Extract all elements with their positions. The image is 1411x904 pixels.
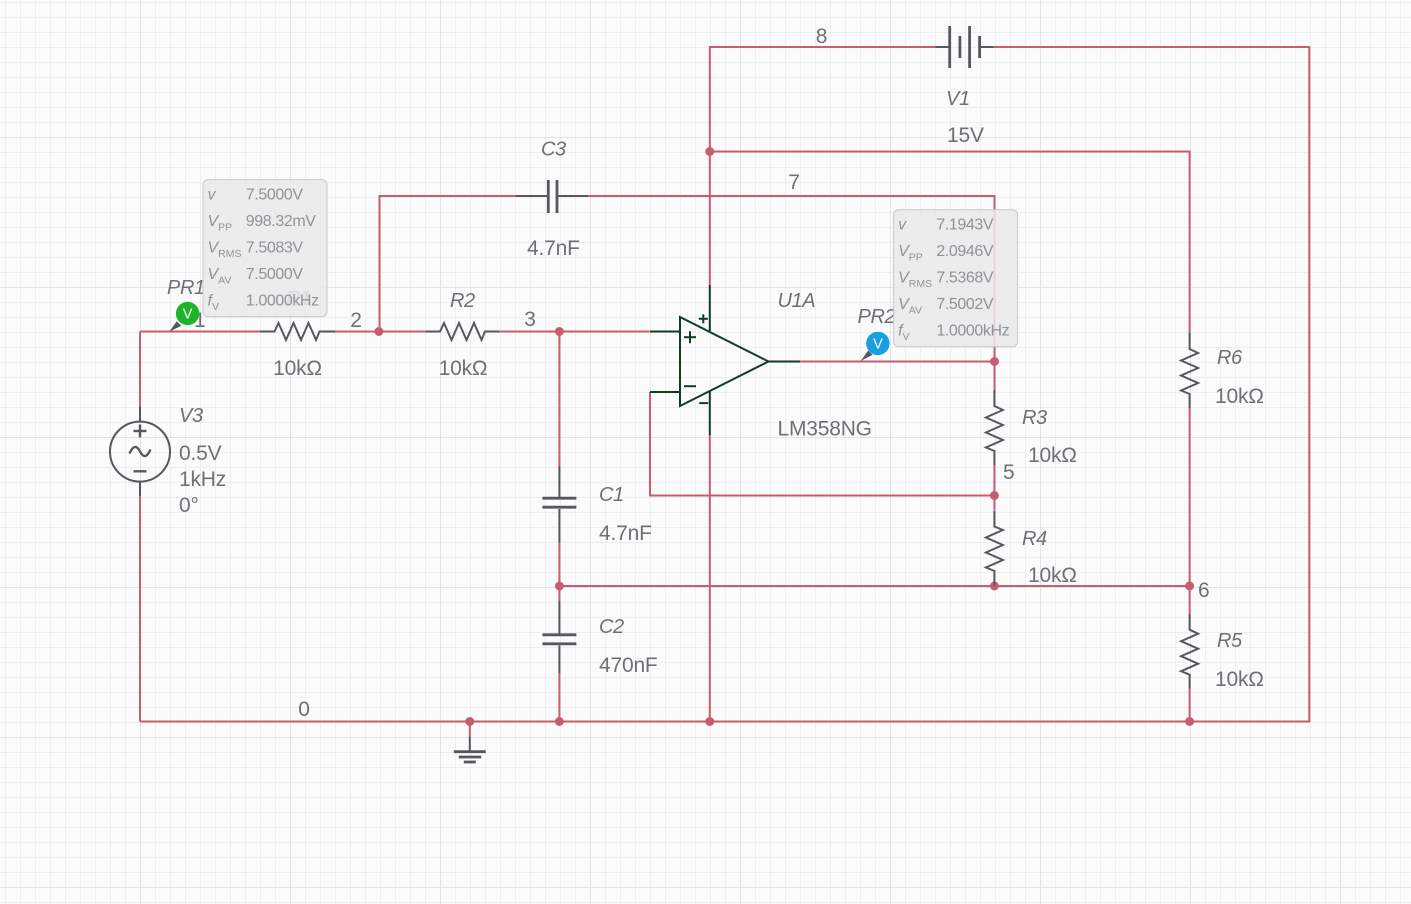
svg-text:10kΩ: 10kΩ	[439, 357, 488, 380]
svg-text:U1A: U1A	[778, 290, 816, 312]
svg-text:8: 8	[816, 25, 827, 48]
svg-text:7.5083V: 7.5083V	[246, 240, 304, 257]
svg-text:1.0000kHz: 1.0000kHz	[246, 293, 319, 310]
svg-text:7.5368V: 7.5368V	[936, 270, 994, 287]
svg-text:1.0000kHz: 1.0000kHz	[936, 323, 1009, 340]
svg-text:10kΩ: 10kΩ	[273, 357, 322, 380]
svg-text:7.1943V: 7.1943V	[936, 217, 994, 234]
svg-text:V: V	[183, 307, 193, 323]
svg-text:V1: V1	[946, 88, 970, 110]
svg-text:3: 3	[524, 308, 535, 331]
svg-text:v: v	[208, 187, 217, 204]
svg-text:LM358NG: LM358NG	[778, 417, 872, 440]
svg-text:7.5000V: 7.5000V	[246, 266, 304, 283]
svg-text:R6: R6	[1217, 347, 1243, 369]
svg-text:v: v	[898, 217, 907, 234]
svg-text:5: 5	[1003, 461, 1014, 484]
svg-text:6: 6	[1198, 579, 1209, 602]
svg-text:PR2: PR2	[858, 306, 896, 328]
svg-text:7: 7	[788, 171, 799, 194]
svg-text:10kΩ: 10kΩ	[1028, 564, 1077, 587]
svg-text:0: 0	[298, 698, 309, 721]
svg-text:2.0946V: 2.0946V	[936, 243, 994, 260]
svg-text:470nF: 470nF	[599, 654, 658, 677]
svg-text:V3: V3	[179, 405, 203, 427]
svg-text:15V: 15V	[947, 124, 984, 147]
svg-text:998.32mV: 998.32mV	[246, 213, 316, 230]
svg-text:C1: C1	[599, 484, 624, 506]
svg-text:PR1: PR1	[167, 277, 205, 299]
svg-text:10kΩ: 10kΩ	[1215, 385, 1264, 408]
svg-text:C3: C3	[541, 139, 566, 161]
svg-text:0°: 0°	[179, 494, 199, 517]
svg-text:10kΩ: 10kΩ	[1215, 668, 1264, 691]
svg-text:0.5V: 0.5V	[179, 442, 222, 465]
svg-text:C2: C2	[599, 616, 624, 638]
svg-text:4.7nF: 4.7nF	[599, 522, 652, 545]
svg-text:2: 2	[350, 309, 361, 332]
svg-text:R2: R2	[450, 290, 475, 312]
svg-text:4.7nF: 4.7nF	[527, 237, 580, 260]
svg-text:R3: R3	[1022, 407, 1047, 429]
svg-text:V: V	[873, 337, 883, 353]
svg-text:1kHz: 1kHz	[179, 468, 226, 491]
svg-text:R4: R4	[1022, 528, 1047, 550]
svg-text:7.5000V: 7.5000V	[246, 187, 304, 204]
svg-text:R5: R5	[1217, 630, 1243, 652]
svg-text:10kΩ: 10kΩ	[1028, 444, 1077, 467]
svg-text:7.5002V: 7.5002V	[936, 296, 994, 313]
